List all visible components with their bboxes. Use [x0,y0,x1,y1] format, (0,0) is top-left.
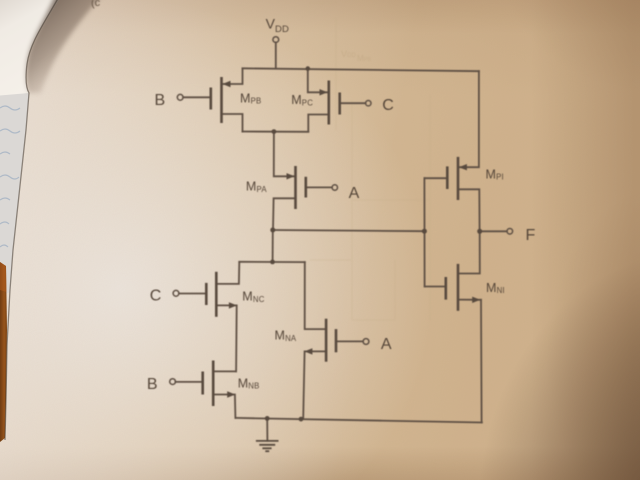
svg-text:NA: NA [285,334,297,343]
svg-text:M: M [291,93,301,107]
svg-text:M: M [246,180,256,194]
svg-text:NI: NI [497,286,505,295]
svg-text:B: B [147,376,158,393]
svg-text:M: M [486,168,496,182]
svg-text:F: F [526,227,536,244]
svg-text:M: M [238,377,248,391]
svg-text:M: M [275,329,285,343]
svg-text:M: M [240,92,250,106]
svg-text:MPB: MPB [357,54,371,63]
svg-text:M: M [486,281,496,295]
svg-text:PB: PB [251,97,262,106]
svg-text:VDD: VDD [341,49,356,59]
svg-text:(c: (c [91,0,101,9]
svg-text:PA: PA [257,185,268,194]
svg-text:NC: NC [253,295,265,304]
svg-text:NB: NB [248,382,259,391]
svg-text:PI: PI [496,173,504,182]
svg-text:A: A [349,185,360,202]
svg-text:M: M [242,290,252,304]
svg-text:A: A [381,336,392,353]
svg-text:DD: DD [275,24,289,35]
svg-text:C: C [382,97,394,114]
svg-text:B: B [155,92,166,109]
svg-text:PC: PC [302,98,313,107]
svg-text:C: C [150,287,162,304]
